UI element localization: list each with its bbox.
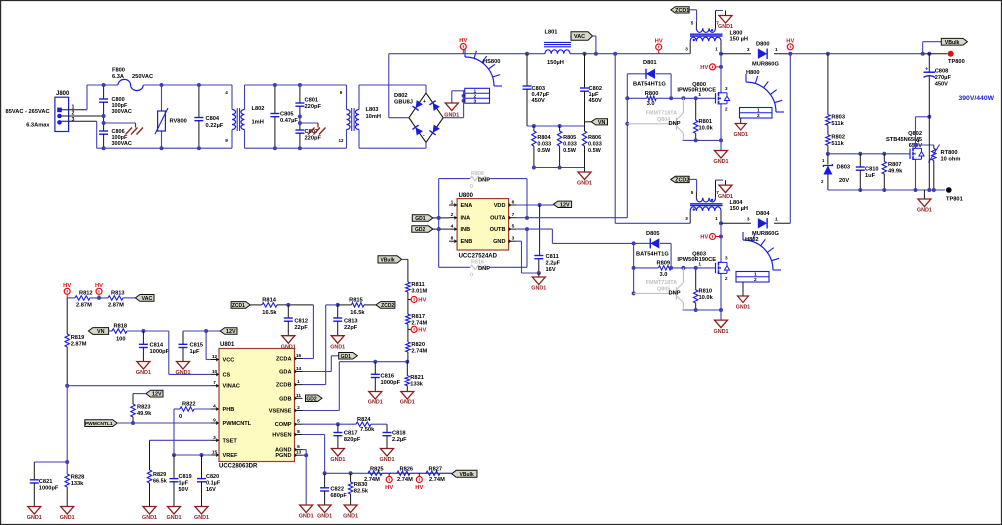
svg-text:5: 5 <box>512 224 515 230</box>
svg-text:VN: VN <box>97 329 105 335</box>
svg-text:L801: L801 <box>545 30 558 36</box>
svg-text:COMP: COMP <box>275 422 292 428</box>
wire COMP <box>303 423 357 425</box>
ground GND1 output <box>923 190 925 199</box>
svg-text:2.74M: 2.74M <box>411 349 427 355</box>
svg-text:C805: C805 <box>280 112 294 118</box>
capacitor C813 <box>336 303 340 307</box>
svg-text:GND1: GND1 <box>577 181 592 187</box>
svg-text:HS800: HS800 <box>483 59 500 65</box>
svg-text:C817: C817 <box>344 431 358 437</box>
resistor R815 <box>338 304 352 306</box>
svg-text:R803: R803 <box>831 115 845 121</box>
svg-text:3.0: 3.0 <box>647 101 655 107</box>
svg-text:CS: CS <box>223 372 231 378</box>
svg-text:2.87M: 2.87M <box>71 342 87 348</box>
test point TP800 <box>924 53 947 55</box>
ground GND1 C813 <box>331 336 344 344</box>
svg-text:GND1: GND1 <box>368 400 383 406</box>
svg-text:2.2µF: 2.2µF <box>546 261 561 267</box>
ground GND1 AGND <box>300 505 313 513</box>
svg-text:VINAC: VINAC <box>223 384 240 390</box>
ground GND1 Q800 <box>715 151 728 159</box>
svg-text:1uF: 1uF <box>865 173 876 179</box>
ground GND1 at L800 aux <box>725 11 727 16</box>
svg-text:133k: 133k <box>71 481 84 487</box>
capacitor C806 <box>103 116 105 131</box>
power flag HV (R826) <box>418 473 420 477</box>
svg-text:0.5W: 0.5W <box>588 148 602 154</box>
svg-text:BAT54HT1G: BAT54HT1G <box>636 252 669 258</box>
svg-text:GND: GND <box>493 239 505 245</box>
capacitor C822 <box>323 471 327 475</box>
svg-text:MUR860G: MUR860G <box>752 62 779 68</box>
svg-text:1: 1 <box>754 272 757 278</box>
svg-text:R815: R815 <box>349 298 363 304</box>
svg-text:5: 5 <box>691 190 694 195</box>
diode D805 BAT54HT1G <box>634 242 650 244</box>
svg-text:ZCDA: ZCDA <box>276 357 292 363</box>
svg-text:1mH: 1mH <box>252 120 264 126</box>
svg-text:GND1: GND1 <box>444 113 459 119</box>
svg-text:DNP: DNP <box>669 121 681 127</box>
heatsink H802 <box>743 240 773 270</box>
svg-text:GND1: GND1 <box>167 515 182 521</box>
svg-text:GDB: GDB <box>279 396 291 402</box>
svg-text:HV: HV <box>415 485 423 491</box>
svg-text:150 µH: 150 µH <box>730 206 748 212</box>
svg-text:2.87M: 2.87M <box>76 302 92 308</box>
wire GND pin U800 <box>517 240 522 242</box>
svg-text:6.3A: 6.3A <box>112 74 124 80</box>
capacitor C812 <box>286 303 290 307</box>
svg-text:D803: D803 <box>837 165 851 171</box>
ground GND1 H802 <box>742 282 744 296</box>
svg-text:C801: C801 <box>305 98 319 104</box>
svg-text:C814: C814 <box>150 343 164 349</box>
resistor R820 <box>407 329 409 342</box>
svg-text:3.01M: 3.01M <box>411 289 427 295</box>
svg-text:R825: R825 <box>370 466 384 472</box>
capacitor C801 <box>299 85 301 103</box>
svg-text:511k: 511k <box>831 141 844 147</box>
svg-text:GND1: GND1 <box>317 514 332 520</box>
svg-text:GND1: GND1 <box>194 515 209 521</box>
capacitor C811 <box>539 205 541 256</box>
resistor R823 <box>133 393 146 395</box>
ground GND1 H800 <box>740 118 742 124</box>
svg-text:511k: 511k <box>831 121 844 127</box>
svg-text:0.5W: 0.5W <box>537 148 551 154</box>
test point TP801 <box>946 187 952 193</box>
svg-text:U800: U800 <box>459 193 474 199</box>
wire CS <box>168 331 170 374</box>
resistor R812 <box>75 296 90 300</box>
svg-text:IPW50R190CE: IPW50R190CE <box>677 88 716 94</box>
net tag ZCD2 top <box>671 176 689 182</box>
svg-text:49.9k: 49.9k <box>888 169 903 175</box>
power flag HV mid rail <box>656 44 662 50</box>
resistor R822 <box>180 407 194 411</box>
svg-text:OUTA: OUTA <box>490 216 505 222</box>
capacitor C810 <box>858 152 862 156</box>
svg-text:ZCDB: ZCDB <box>276 383 292 389</box>
wire ZCDA <box>312 305 314 359</box>
capacitor C805 <box>274 85 276 114</box>
svg-text:DNP: DNP <box>478 266 490 272</box>
svg-text:R808: R808 <box>471 171 484 177</box>
svg-text:HV: HV <box>786 38 794 44</box>
svg-text:3.0: 3.0 <box>660 272 668 278</box>
svg-text:450V: 450V <box>589 98 602 104</box>
svg-text:R811: R811 <box>411 282 424 288</box>
resistor R824 <box>356 422 371 426</box>
svg-text:GND1: GND1 <box>400 400 415 406</box>
svg-text:HV: HV <box>655 39 663 45</box>
transformer L800 <box>695 22 697 29</box>
power flag HV (R811) <box>407 292 409 300</box>
ground GND1 C820 <box>195 507 208 515</box>
svg-text:2: 2 <box>725 276 728 281</box>
wire HVSEN <box>303 434 325 436</box>
svg-text:300VAC: 300VAC <box>112 141 132 147</box>
net tag VAC top <box>571 32 593 40</box>
svg-text:1: 1 <box>297 379 300 385</box>
svg-text:6: 6 <box>297 444 300 450</box>
power tag VBulk top right <box>922 42 924 54</box>
svg-text:GBU8J: GBU8J <box>394 100 413 106</box>
svg-text:1: 1 <box>775 47 778 53</box>
svg-text:0.033: 0.033 <box>563 142 577 148</box>
svg-text:220pF: 220pF <box>305 104 322 110</box>
transformer L804 <box>695 191 697 198</box>
svg-text:C811: C811 <box>546 254 559 260</box>
svg-text:GND1: GND1 <box>531 286 546 292</box>
svg-text:10.0k: 10.0k <box>699 126 714 132</box>
net tag GD2 at INB <box>412 226 433 233</box>
resistor R826 <box>397 471 410 475</box>
capacitor C820 <box>201 455 203 479</box>
svg-text:VBulk: VBulk <box>380 257 394 263</box>
svg-text:12V: 12V <box>152 392 162 398</box>
svg-text:ENA: ENA <box>461 203 473 209</box>
svg-text:1000pF: 1000pF <box>381 380 401 386</box>
svg-text:VAC: VAC <box>141 296 152 302</box>
svg-text:2: 2 <box>451 212 454 218</box>
resistor R809 <box>659 266 672 270</box>
op-amp U800 UCC27524AD <box>457 199 509 250</box>
svg-text:R813: R813 <box>111 291 125 297</box>
svg-text:D800: D800 <box>756 42 770 48</box>
svg-text:RT800: RT800 <box>941 150 958 156</box>
svg-text:2.74M: 2.74M <box>429 477 445 483</box>
svg-text:GND1: GND1 <box>714 329 729 335</box>
ground GND1 C822 <box>318 505 331 513</box>
svg-text:1000pF: 1000pF <box>150 349 170 355</box>
net tag ZCD1 <box>231 302 250 309</box>
ground GND1 U800 <box>538 273 540 277</box>
svg-text:1: 1 <box>715 216 718 221</box>
svg-text:0: 0 <box>179 414 182 420</box>
svg-text:16.5k: 16.5k <box>350 310 365 316</box>
resistor R821 <box>406 362 408 376</box>
net tag GD1 at INA <box>412 215 433 222</box>
shunt resistors R804 R805 R806 <box>527 125 585 127</box>
svg-text:49.9k: 49.9k <box>137 411 152 417</box>
svg-text:GND1: GND1 <box>176 370 191 376</box>
svg-text:C816: C816 <box>381 374 395 380</box>
svg-text:GND1: GND1 <box>299 514 314 520</box>
svg-text:D805: D805 <box>646 231 660 237</box>
ground GND1 C815 <box>177 362 190 370</box>
svg-text:GD2: GD2 <box>306 396 317 402</box>
wire HV rail <box>389 53 527 55</box>
svg-text:DNP: DNP <box>478 178 490 184</box>
svg-text:VDD: VDD <box>494 203 506 209</box>
resistor R803 <box>826 52 830 56</box>
svg-text:R801: R801 <box>699 119 713 125</box>
svg-text:R807: R807 <box>888 162 902 168</box>
net tag ZCD1 top <box>671 7 689 13</box>
svg-text:HV: HV <box>95 283 103 289</box>
net tag VAC <box>135 295 154 302</box>
svg-text:GND1: GND1 <box>281 344 296 350</box>
inductor L801 <box>527 53 545 55</box>
net tag VN top <box>585 121 592 123</box>
wire VSENSE <box>303 410 340 412</box>
resistor R813 <box>108 296 123 300</box>
ground GND1 R828 <box>61 507 74 515</box>
svg-text:16V: 16V <box>546 267 556 273</box>
svg-text:C812: C812 <box>294 319 308 325</box>
svg-text:1µF: 1µF <box>179 481 189 487</box>
svg-text:R819: R819 <box>71 335 85 341</box>
varistor RV800 <box>161 85 163 111</box>
svg-text:1: 1 <box>715 47 718 52</box>
wire J800 pin1 to top rail <box>62 109 88 111</box>
svg-text:GND1: GND1 <box>380 457 395 463</box>
svg-text:TP801: TP801 <box>946 197 963 203</box>
resistor R828 <box>65 474 69 487</box>
svg-text:R802: R802 <box>831 135 845 141</box>
svg-text:PHB: PHB <box>223 407 235 413</box>
svg-text:U801: U801 <box>220 342 235 348</box>
svg-text:R816: R816 <box>471 260 484 266</box>
svg-text:C819: C819 <box>179 474 192 480</box>
svg-text:FMMT718TA: FMMT718TA <box>646 111 677 117</box>
svg-text:3: 3 <box>725 86 728 91</box>
heatsink HS800 <box>465 57 494 86</box>
svg-text:C804: C804 <box>206 116 220 122</box>
svg-text:C822: C822 <box>330 487 344 493</box>
svg-text:C810: C810 <box>865 167 879 173</box>
svg-text:450V: 450V <box>532 98 545 104</box>
svg-text:2: 2 <box>754 277 757 283</box>
resistor R819 <box>66 298 68 334</box>
svg-text:2.74M: 2.74M <box>397 477 413 483</box>
svg-text:3: 3 <box>747 217 750 223</box>
wire OUTB to phase2 <box>517 228 553 230</box>
svg-text:11: 11 <box>296 393 301 399</box>
svg-text:GND1: GND1 <box>343 514 358 520</box>
svg-text:2.87M: 2.87M <box>108 302 124 308</box>
wire 12V to VCC <box>183 330 220 332</box>
svg-text:250VAC: 250VAC <box>132 74 153 80</box>
svg-text:8: 8 <box>297 429 300 435</box>
wire AGND PGND <box>303 449 307 451</box>
svg-text:HVSEN: HVSEN <box>272 433 291 439</box>
svg-text:6: 6 <box>340 90 343 95</box>
capacitor C821 <box>34 461 67 463</box>
capacitor C818 <box>386 424 388 432</box>
wire VINAC <box>65 384 69 388</box>
svg-text:VBulk: VBulk <box>460 472 474 478</box>
svg-text:R809: R809 <box>657 261 671 267</box>
svg-text:GND1: GND1 <box>136 370 151 376</box>
svg-text:VN: VN <box>598 120 606 126</box>
fuse F800 <box>87 84 118 86</box>
svg-text:0: 0 <box>470 184 473 190</box>
svg-text:R829: R829 <box>153 472 166 478</box>
ground GND1 C821 <box>28 507 41 515</box>
svg-text:1: 1 <box>775 217 778 223</box>
svg-text:FMMT718TA: FMMT718TA <box>646 280 677 286</box>
wire gate row Q802 <box>826 152 830 156</box>
diode D801 BAT54HT1G <box>627 73 645 75</box>
svg-text:UCC28063DR: UCC28063DR <box>219 464 258 470</box>
svg-text:82.5k: 82.5k <box>354 489 369 495</box>
svg-text:9: 9 <box>213 418 216 424</box>
net tag 12V (VCC) <box>220 328 237 335</box>
svg-text:22pF: 22pF <box>344 325 358 331</box>
diode D804 MUR860G <box>721 222 751 224</box>
svg-text:300VAC: 300VAC <box>112 109 132 115</box>
svg-text:+: + <box>423 99 426 105</box>
wire OUTA net / gate bus phase1 <box>626 74 628 218</box>
svg-text:0: 0 <box>470 273 473 279</box>
svg-text:7: 7 <box>512 212 515 218</box>
svg-text:VBulk: VBulk <box>945 40 960 46</box>
wire ENA/ENB bus <box>438 179 440 268</box>
svg-text:1: 1 <box>451 200 454 206</box>
svg-text:VAC: VAC <box>574 34 585 40</box>
svg-text:HV: HV <box>700 235 708 241</box>
mosfet Q800 IPW50R190CE <box>720 54 722 92</box>
svg-text:2: 2 <box>725 107 728 112</box>
power flag HV (R817) <box>407 324 409 329</box>
svg-text:680pF: 680pF <box>330 493 347 499</box>
svg-text:5: 5 <box>297 419 300 425</box>
svg-text:3: 3 <box>725 256 728 261</box>
svg-text:GND1: GND1 <box>60 515 75 521</box>
svg-text:GD2: GD2 <box>415 227 426 233</box>
wire phase2 feed <box>613 52 617 56</box>
svg-text:H800: H800 <box>746 70 760 76</box>
svg-text:GND1: GND1 <box>736 305 751 311</box>
ground GND1 C814 <box>137 362 150 370</box>
svg-text:66.5k: 66.5k <box>153 479 168 485</box>
svg-text:L803: L803 <box>366 107 379 113</box>
svg-text:VCC: VCC <box>223 358 235 364</box>
net tag 12V (R823) <box>146 390 163 397</box>
wire output bottom row <box>828 189 945 191</box>
svg-text:GND1: GND1 <box>714 159 729 165</box>
svg-text:DNP: DNP <box>669 291 681 297</box>
svg-text:22pF: 22pF <box>294 325 308 331</box>
svg-text:3: 3 <box>72 117 75 123</box>
svg-text:HV: HV <box>418 298 426 304</box>
svg-text:8: 8 <box>451 236 454 242</box>
svg-text:H802: H802 <box>745 237 759 243</box>
svg-text:150µH: 150µH <box>547 60 564 66</box>
svg-text:ZCD1: ZCD1 <box>675 8 689 14</box>
svg-text:133k: 133k <box>410 382 423 388</box>
svg-text:6.3Amax: 6.3Amax <box>26 122 50 128</box>
svg-text:HV: HV <box>63 283 71 289</box>
svg-text:GND1: GND1 <box>733 132 748 138</box>
svg-text:7.50k: 7.50k <box>360 427 375 433</box>
power flag HV (R812) <box>64 288 70 294</box>
svg-text:12V: 12V <box>560 202 570 208</box>
svg-text:2.2µF: 2.2µF <box>392 437 407 443</box>
svg-text:2: 2 <box>757 113 760 119</box>
mosfet Q803 IPW50R190CE <box>720 223 722 261</box>
capacitor C803 <box>525 52 529 56</box>
svg-text:HV: HV <box>700 65 708 71</box>
power flag HV at Q803 drain <box>710 234 716 240</box>
svg-text:820pF: 820pF <box>344 437 361 443</box>
resistor R811 <box>406 282 410 292</box>
svg-text:0.47µF: 0.47µF <box>280 118 298 124</box>
wire R822 to VREF <box>173 409 175 455</box>
svg-text:1: 1 <box>698 92 701 98</box>
resistor R814 <box>250 304 262 306</box>
wire bridge bottom <box>425 142 427 148</box>
net tag GD2 <box>306 395 323 402</box>
ground GND1 C818 <box>381 449 394 457</box>
svg-text:ZCD2: ZCD2 <box>381 303 394 309</box>
capacitor C815 <box>182 331 184 344</box>
capacitor C802 <box>583 52 587 56</box>
svg-text:GND1: GND1 <box>27 515 42 521</box>
svg-text:1: 1 <box>757 108 760 114</box>
wire Q800 source <box>720 105 722 150</box>
resistor R827 <box>426 471 440 475</box>
svg-text:10.0k: 10.0k <box>699 295 714 301</box>
svg-text:D804: D804 <box>756 211 770 217</box>
svg-text:3: 3 <box>747 47 750 53</box>
ground GND1 C819 <box>168 507 181 515</box>
svg-text:R800: R800 <box>645 91 659 97</box>
wire ZCDB <box>303 384 326 386</box>
svg-text:16.5k: 16.5k <box>262 310 277 316</box>
svg-text:OUTB: OUTB <box>490 227 506 233</box>
power flag HV at Q800 drain <box>710 64 716 70</box>
svg-text:4: 4 <box>213 404 216 410</box>
svg-text:C818: C818 <box>392 431 406 437</box>
svg-text:1: 1 <box>698 262 701 268</box>
power flag HV (R813) <box>96 288 102 294</box>
resistor R802 <box>827 125 829 135</box>
svg-text:R823: R823 <box>137 405 151 411</box>
svg-text:D801: D801 <box>643 60 657 66</box>
power flag HV on rail left <box>460 44 466 50</box>
svg-text:100: 100 <box>116 337 126 343</box>
power flag HV (R825) <box>388 473 390 477</box>
chassis earth near C806 <box>102 121 106 125</box>
svg-text:UCC27524AD: UCC27524AD <box>459 254 498 260</box>
resistor R817 <box>407 300 409 315</box>
